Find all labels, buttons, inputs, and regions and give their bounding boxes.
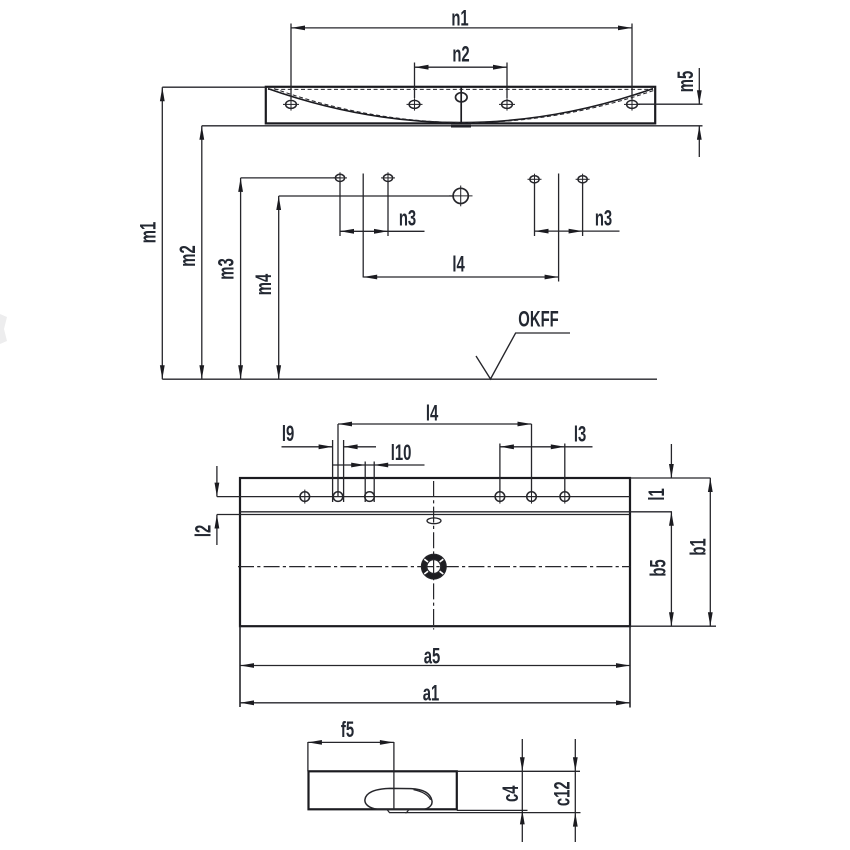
front view tap hole right outer: [627, 100, 638, 108]
svg-text:l9: l9: [282, 422, 294, 447]
svg-text:m4: m4: [252, 273, 277, 295]
dimension f5 extension left: [307, 742, 309, 771]
side view top extension line: [457, 770, 580, 772]
side view outline: [309, 771, 457, 809]
dimension l2 line: [216, 466, 218, 497]
svg-text:m3: m3: [215, 258, 240, 279]
svg-text:a1: a1: [423, 682, 440, 707]
svg-text:l2: l2: [192, 525, 217, 537]
plan overflow slot: [427, 518, 441, 524]
dimension m3 line: [240, 178, 242, 379]
svg-text:l4: l4: [452, 253, 465, 278]
hole2 diameter edge lines for l9: [332, 440, 334, 502]
plan vertical centreline: [433, 481, 435, 630]
dimension m1 line: [161, 87, 163, 379]
side view drain lip: [387, 810, 409, 813]
svg-text:m5: m5: [674, 70, 699, 92]
dimension l3 line: [500, 446, 593, 448]
hole3 diameter edge lines for l10: [364, 462, 366, 503]
plan drain ring highlights: [440, 571, 444, 574]
plan tap hole left 3: [365, 492, 375, 502]
dimension l4 front line: [363, 276, 558, 278]
dimension m4 line: [278, 196, 280, 379]
mounting hole right B: [578, 176, 587, 183]
dimension n2 extension line left: [414, 63, 416, 99]
front view tap hole right inner: [502, 100, 513, 108]
front view tap hole left outer: [286, 100, 297, 108]
extension line m4 to center hole: [279, 195, 453, 197]
dimension l10 line: [332, 464, 424, 466]
svg-text:n1: n1: [451, 7, 469, 32]
dimension m5 extension line basin bottom: [657, 125, 703, 127]
plan drain inner circle: [427, 560, 441, 574]
dimension l1 line: [670, 444, 672, 478]
front view hidden rim dashed line: [268, 88, 653, 90]
dimension a5 line: [240, 665, 630, 667]
extension line m3 to mounting hole: [241, 177, 340, 179]
right group extension lines: [499, 444, 501, 493]
dimension n2 line: [415, 66, 508, 68]
svg-text:c12: c12: [551, 781, 576, 806]
mounting hole right A: [530, 176, 539, 183]
svg-text:b1: b1: [687, 538, 712, 556]
dimension n1 extension line left: [290, 24, 292, 100]
plan tap hole left 1: [300, 492, 310, 502]
left faucet group centre line: [362, 174, 364, 278]
front view center hole circle: [456, 93, 468, 102]
OKFF floor level symbol: [476, 333, 570, 379]
floor line: [162, 378, 657, 380]
dimension m5 extension line hole level: [637, 103, 703, 105]
plan view left edge extension for a-dims: [239, 626, 241, 707]
dimension n2 extension line right: [506, 63, 508, 99]
side view bottom extension line c12: [405, 812, 581, 814]
dimension b1 line: [709, 478, 711, 626]
front view basin curve solid: [268, 89, 653, 123]
dimension m2 line: [201, 126, 203, 379]
center fixing hole: [453, 188, 468, 203]
dimension l4 plan line: [338, 423, 532, 425]
plan view top edge extension for b1: [630, 477, 711, 479]
plan view outline: [240, 478, 630, 626]
dimension f5 line: [308, 741, 394, 743]
dimension n3 right extension lines: [534, 184, 536, 237]
side view basin profile inner line: [414, 790, 431, 800]
svg-text:f5: f5: [341, 718, 355, 743]
svg-text:n3: n3: [595, 207, 612, 232]
plan drain outer circle: [421, 554, 446, 579]
watermark fragment left edge: [0, 314, 7, 344]
mounting hole left B: [383, 174, 392, 181]
svg-text:l3: l3: [574, 423, 586, 448]
plan tap hole right 1: [495, 492, 505, 502]
plan view right edge extension for a-dims: [629, 626, 631, 707]
svg-text:m1: m1: [137, 221, 162, 243]
svg-text:c4: c4: [499, 785, 524, 802]
extension line m2 to basin bottom: [202, 125, 657, 127]
svg-text:l1: l1: [645, 488, 670, 501]
svg-text:m2: m2: [176, 245, 201, 266]
svg-text:l4: l4: [426, 402, 439, 427]
front view tap hole left inner: [409, 100, 420, 108]
plan view bottom edge extension for b1: [630, 625, 716, 627]
plan horizontal centreline: [238, 566, 631, 568]
plan tap hole centre line: [217, 496, 630, 498]
right faucet group centre line: [558, 174, 560, 282]
plan drain ring: [424, 557, 443, 576]
svg-text:n3: n3: [399, 207, 416, 232]
front view basin outline: [266, 87, 655, 124]
plan tap hole right 2: [527, 492, 537, 502]
side view bottom extension line c4: [457, 809, 528, 811]
side view basin bottom profile: [365, 788, 432, 809]
plan basin back edge double line upper: [240, 511, 672, 513]
dimension n3 left extension lines: [339, 182, 341, 236]
plan basin back edge double line lower: [240, 514, 630, 516]
dimension m1 extension line top: [162, 86, 266, 88]
dimension c12 line: [574, 739, 576, 842]
dimension n3 left line: [340, 230, 425, 232]
plan tap hole left 2: [333, 492, 343, 502]
mounting hole left A: [335, 174, 344, 181]
dimension n3 right line: [535, 230, 620, 232]
svg-text:a5: a5: [424, 645, 441, 670]
plan tap hole right 3: [560, 492, 570, 502]
front view center faucet axis line: [460, 88, 462, 124]
dimension f5 extension right: [393, 742, 395, 809]
dimension l9 line: [282, 446, 333, 448]
dimension c4 line: [521, 739, 523, 842]
dimension n1 extension line right: [631, 24, 633, 100]
dimension b5 line: [670, 512, 672, 626]
svg-text:OKFF: OKFF: [518, 307, 558, 332]
dimension a1 line: [240, 702, 630, 704]
dimension m5 line: [698, 68, 700, 104]
front view drain mark: [451, 125, 471, 128]
svg-text:l10: l10: [391, 441, 412, 466]
l2 extension line lower: [217, 514, 240, 516]
dimension n1 line: [291, 27, 632, 29]
svg-text:b5: b5: [647, 559, 672, 577]
svg-text:n2: n2: [452, 43, 469, 68]
hole2 centre extension for l4: [337, 424, 339, 497]
